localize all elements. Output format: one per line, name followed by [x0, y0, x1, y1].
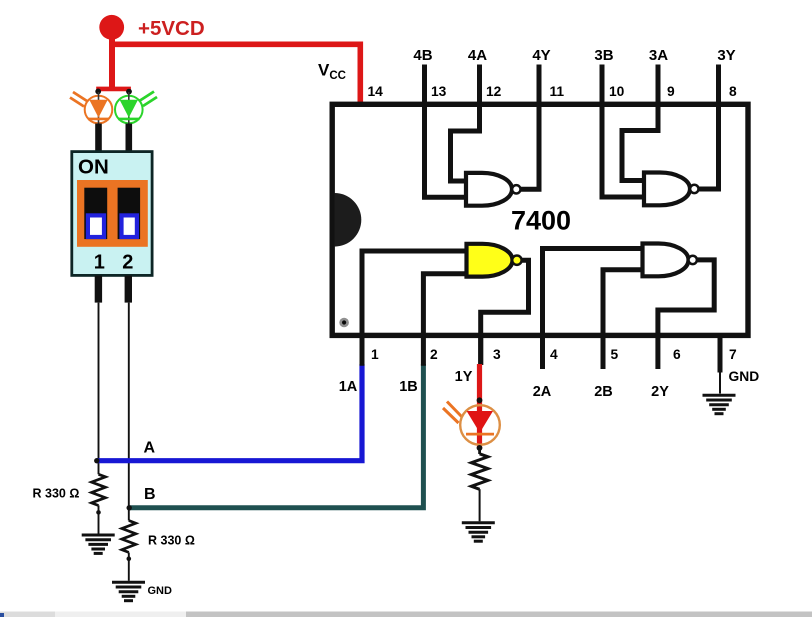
svg-text:4B: 4B	[413, 47, 432, 64]
wire pin 2 to gate1 input B	[423, 274, 467, 366]
svg-text:10: 10	[609, 84, 625, 99]
wire switch pole 2 stub	[125, 276, 132, 303]
op gate U1C nand	[644, 173, 699, 206]
svg-text:A: A	[144, 440, 156, 457]
svg-text:1: 1	[94, 252, 105, 274]
svg-text:14: 14	[368, 84, 384, 99]
junction dot anode D2	[126, 89, 132, 95]
svg-text:GND: GND	[729, 369, 760, 384]
wire D3 to R3	[478, 448, 481, 454]
svg-text:2: 2	[122, 252, 133, 274]
wire switch pole 1 stub	[95, 276, 102, 303]
resistor R1 330	[92, 474, 106, 505]
svg-text:1Y: 1Y	[455, 369, 473, 385]
wire pin 3 red to LED D3	[477, 364, 482, 448]
junction dot R1	[96, 510, 101, 515]
wire gate2 output to pin 6	[658, 260, 714, 369]
svg-text:3Y: 3Y	[717, 47, 735, 64]
op gate U1D nand	[466, 173, 521, 206]
wire pole 1 thin	[98, 303, 100, 475]
wire pole 2 thin	[128, 303, 130, 521]
wire B (teal) to pin 2	[129, 364, 423, 508]
wire pin 1 to gate1 input A	[362, 251, 468, 366]
LED D2 (green)	[115, 92, 157, 127]
svg-text:B: B	[144, 486, 156, 503]
op gate U1A nand (yellow)	[467, 244, 522, 277]
wire pin 7 stub	[718, 337, 723, 373]
ground G1	[82, 535, 115, 553]
wire pin 4 to gate2 input A	[543, 249, 644, 370]
svg-text:R 330 Ω: R 330 Ω	[148, 534, 195, 548]
svg-text:8: 8	[729, 84, 737, 99]
svg-text:1A: 1A	[339, 379, 358, 395]
junction dot anode D1	[95, 89, 101, 95]
wire pin 12 to gate4 input A	[451, 65, 480, 182]
svg-text:2Y: 2Y	[651, 384, 669, 400]
svg-text:7400: 7400	[511, 206, 571, 236]
junction dot D3 cathode	[477, 445, 483, 451]
op gate U1B nand	[643, 244, 697, 277]
svg-text:GND: GND	[148, 585, 173, 597]
wire gate4 output to pin 11	[521, 65, 540, 190]
wire LED anode tee bar	[96, 87, 131, 92]
svg-text:4A: 4A	[468, 47, 487, 64]
svg-text:+5VCD: +5VCD	[138, 17, 205, 40]
svg-text:3B: 3B	[594, 47, 613, 64]
junction dot R2	[127, 556, 132, 561]
ground G3	[462, 523, 495, 541]
wire A (blue) to pin 1	[97, 364, 362, 461]
svg-text:R 330 Ω: R 330 Ω	[33, 487, 80, 501]
wire pin 9 to gate3 input A	[622, 65, 658, 181]
wire D1 cathode lead	[95, 124, 102, 153]
LED D1 (orange)	[70, 92, 112, 126]
resistor R2 330	[122, 521, 136, 553]
svg-text:11: 11	[550, 84, 565, 99]
wire gate1 output to pin 3	[481, 260, 529, 365]
svg-text:12: 12	[486, 84, 502, 99]
svg-text:2B: 2B	[594, 384, 613, 400]
switch SW1 slot 1	[84, 188, 107, 239]
switch SW1 slot 2	[118, 188, 141, 239]
svg-text:4: 4	[550, 347, 558, 362]
svg-text:5: 5	[611, 347, 619, 362]
wire pin 7 to ground	[719, 373, 721, 394]
wire +5V horizontal to pin 14	[109, 44, 360, 106]
switch SW1 slider 1	[86, 213, 106, 239]
svg-text:2: 2	[430, 347, 438, 362]
svg-text:9: 9	[667, 84, 675, 99]
wire pin 13 to gate4 input B	[425, 65, 468, 198]
junction node B	[127, 505, 132, 510]
junction node A	[94, 458, 99, 463]
wire pin 5 to gate2 input B	[603, 270, 644, 369]
LED D3 (red)	[443, 402, 500, 445]
svg-text:3A: 3A	[649, 47, 668, 64]
resistor R3	[471, 454, 488, 489]
wire R1 to ground	[98, 505, 100, 533]
svg-text:6: 6	[673, 347, 681, 362]
IC pin1 indicator dot	[339, 318, 349, 328]
svg-text:2A: 2A	[533, 384, 552, 400]
node +5VCD	[99, 15, 124, 40]
wire R2 to ground	[128, 553, 130, 581]
svg-text:ON: ON	[78, 156, 109, 179]
wire D2 cathode lead	[126, 124, 133, 153]
svg-text:13: 13	[431, 84, 447, 99]
wire R3 to ground	[479, 489, 481, 521]
ground G2	[112, 582, 145, 600]
wire gate3 output to pin 8	[699, 65, 719, 190]
svg-text:3: 3	[493, 347, 501, 362]
ground G7 pin 7	[703, 395, 736, 413]
switch SW1 orange frame	[77, 180, 148, 247]
svg-text:4Y: 4Y	[532, 47, 550, 64]
wire pin 10 to gate3 input B	[602, 65, 645, 198]
IC U1 7400 body	[332, 104, 748, 335]
svg-text:1: 1	[371, 347, 379, 362]
svg-text:1B: 1B	[399, 379, 418, 395]
scrollbar strip bottom	[0, 612, 812, 617]
switch SW1 body	[72, 152, 152, 276]
wire +5V vertical to LED tee	[109, 32, 115, 91]
IC notch	[335, 193, 362, 247]
svg-text:7: 7	[729, 347, 737, 362]
switch SW1 slider 2	[119, 213, 139, 239]
wire pin 3 stub	[478, 337, 483, 365]
junction dot 1Y top	[477, 397, 483, 403]
